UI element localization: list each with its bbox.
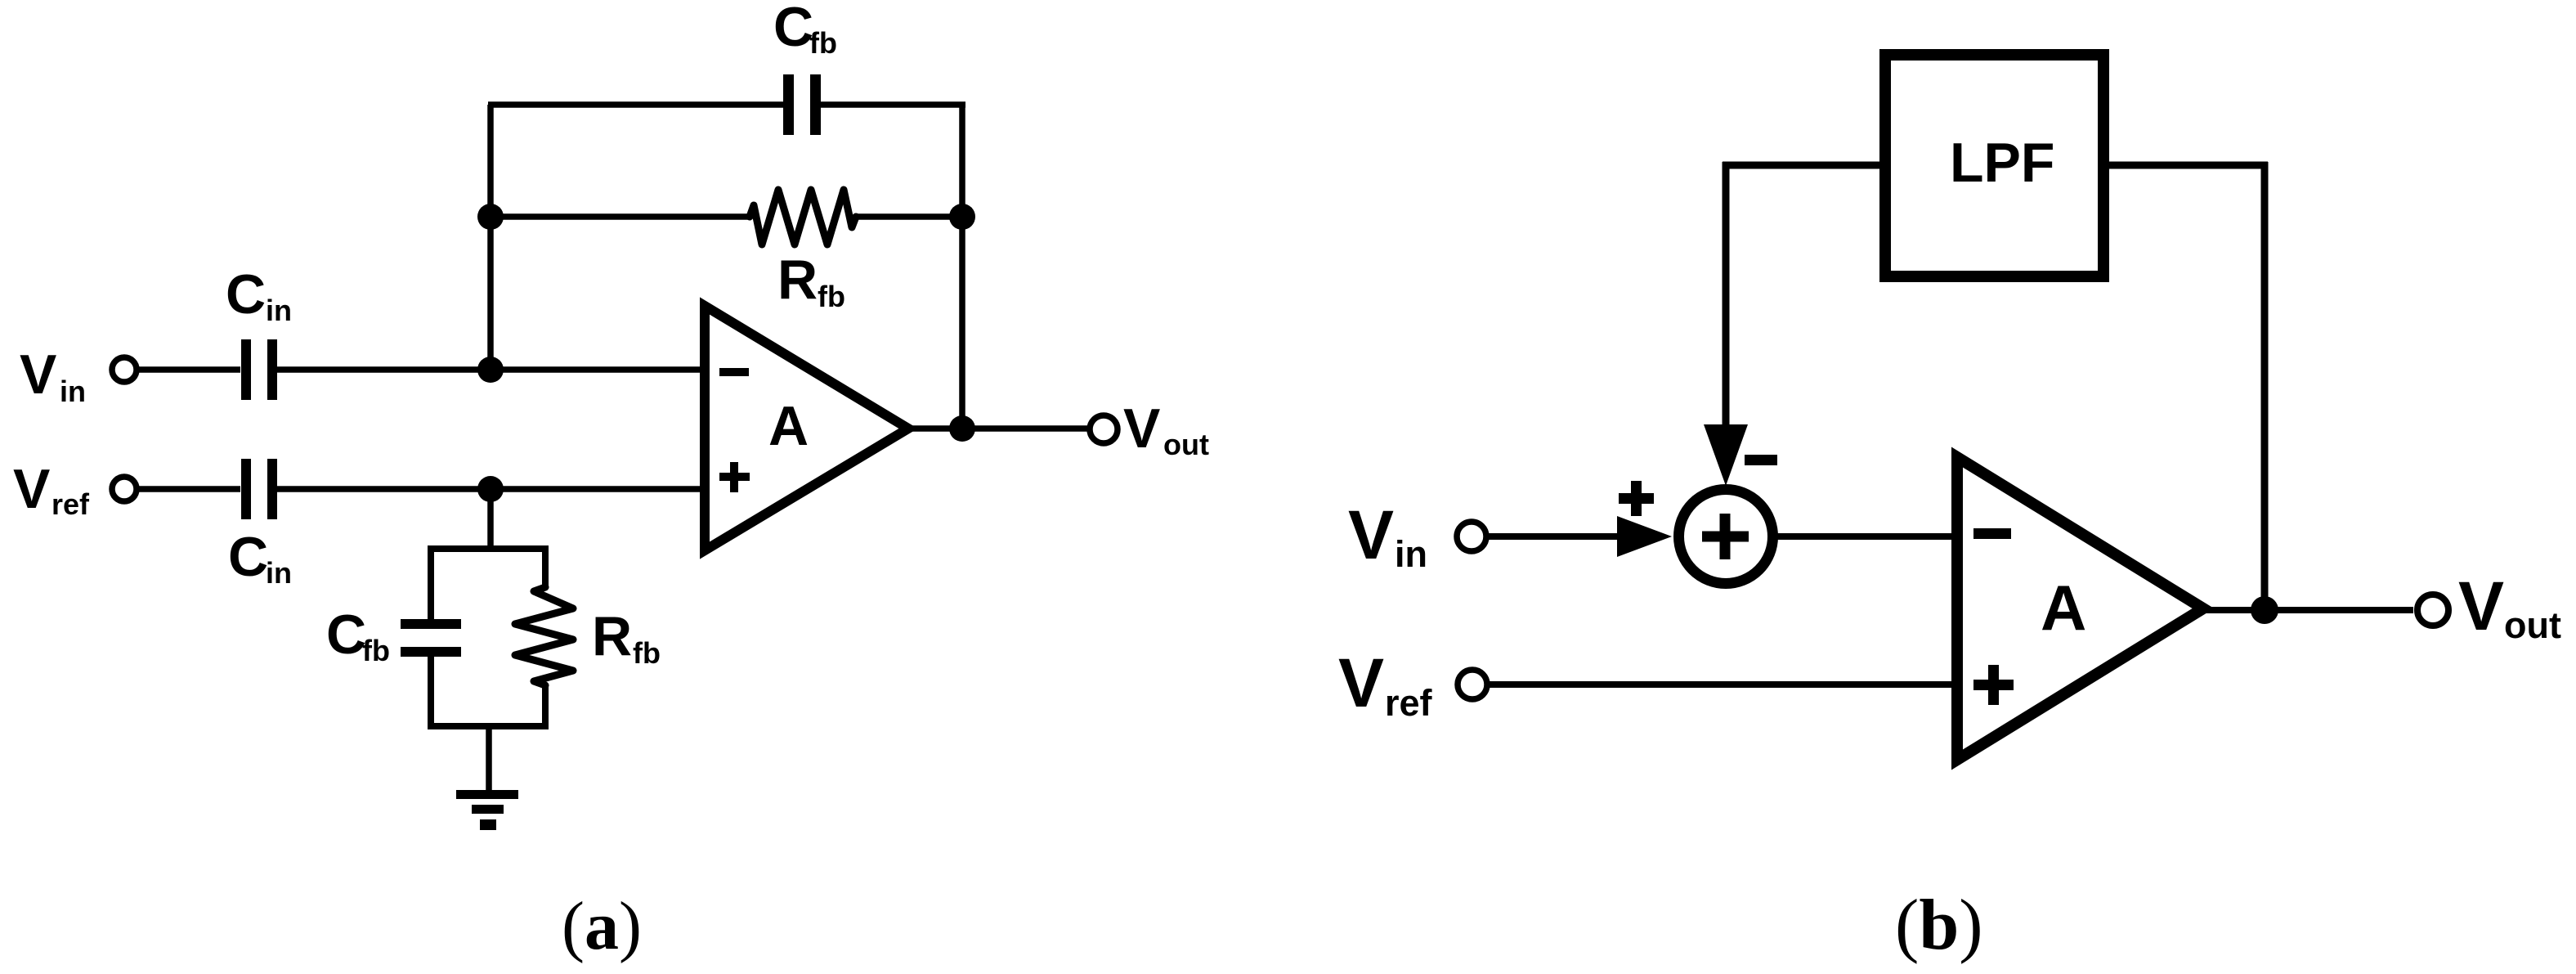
wire Vref to Cin2 <box>139 486 240 492</box>
svg-text:C: C <box>228 526 268 588</box>
wire RC block right lower lead <box>542 685 549 729</box>
svg-text:in: in <box>60 375 86 408</box>
svg-text:out: out <box>1163 428 1209 461</box>
wire RC block left upper <box>428 545 434 619</box>
terminal Vin b <box>1457 522 1486 551</box>
wire top feedback left segment <box>488 101 783 108</box>
svg-text:fb: fb <box>818 280 845 313</box>
wire op-amp output <box>908 425 1089 432</box>
label plus at summer <box>1619 481 1654 516</box>
wire Vref b to op-amp plus <box>1487 681 1954 688</box>
wire feedback vertical into summer <box>1723 162 1730 429</box>
op-amp A1 <box>705 306 908 550</box>
capacitor Cin1 <box>241 339 277 400</box>
label Vout b <box>2458 568 2561 646</box>
resistor Rfb1 <box>750 190 856 245</box>
summing node <box>1679 490 1773 584</box>
svg-text:in: in <box>1395 533 1427 575</box>
node non-inverting input junction <box>477 476 504 502</box>
svg-text:V: V <box>1123 397 1160 460</box>
label Vref b <box>1338 644 1433 724</box>
label Vin b <box>1348 496 1427 575</box>
svg-text:R: R <box>592 605 632 667</box>
terminal Vin <box>112 357 137 382</box>
svg-text:A: A <box>2041 572 2086 644</box>
svg-text:C: C <box>326 604 366 666</box>
wire RC block right upper lead <box>542 545 549 587</box>
node output junction b <box>2251 596 2278 624</box>
ground <box>456 790 518 830</box>
arrowhead Vin into summer <box>1617 516 1672 557</box>
arrowhead into summer <box>1704 424 1748 486</box>
wire RC block top <box>431 545 545 552</box>
capacitor Cfb1 <box>783 74 821 135</box>
label Vref <box>13 458 90 521</box>
wire Vin b to summer <box>1486 533 1627 540</box>
svg-text:ref: ref <box>1385 682 1433 724</box>
svg-text:fb: fb <box>362 634 390 667</box>
svg-text:(a): (a) <box>562 888 642 964</box>
wire Cin1 to op-amp minus input <box>277 366 701 373</box>
svg-text:V: V <box>20 343 56 406</box>
node output junction <box>949 415 975 442</box>
wire LPF right feedback horizontal <box>2103 162 2268 169</box>
terminal Vout <box>1090 415 1118 443</box>
terminal Vref b <box>1458 670 1487 699</box>
wire feedback right vertical <box>959 102 965 429</box>
svg-text:C: C <box>773 0 813 58</box>
wire Cin2 to op-amp plus input <box>277 486 701 492</box>
svg-text:ref: ref <box>52 487 90 521</box>
svg-text:R: R <box>777 249 818 311</box>
svg-text:C: C <box>226 263 266 325</box>
svg-text:fb: fb <box>809 26 837 60</box>
wire Vin to Cin <box>139 366 240 373</box>
node feedback left on Rfb row <box>477 204 504 230</box>
wire Rfb row left segment <box>491 213 750 220</box>
label Vout <box>1123 397 1209 461</box>
label Rfb2 <box>592 605 661 670</box>
svg-text:V: V <box>13 458 50 520</box>
capacitor Cfb2 <box>401 619 461 657</box>
wire RC block bottom <box>431 723 545 729</box>
terminal Vref <box>112 477 137 501</box>
label Cin2 <box>228 526 292 590</box>
wire feedback right vertical b <box>2261 162 2269 610</box>
wire feedback left vertical <box>487 105 494 370</box>
svg-text:in: in <box>266 556 292 590</box>
label Cin1 <box>226 263 292 327</box>
svg-text:V: V <box>2458 568 2504 644</box>
block LPF <box>1885 55 2103 276</box>
svg-text:A: A <box>768 395 809 457</box>
op-amp A2 <box>1957 457 2203 760</box>
label Vin <box>20 343 86 408</box>
wire RC block left lower <box>428 657 434 729</box>
node inverting input junction <box>477 357 504 383</box>
svg-text:V: V <box>1348 496 1394 573</box>
svg-text:out: out <box>2504 604 2561 646</box>
wire Vref junction to RC block <box>487 489 494 552</box>
label minus at summer <box>1745 455 1777 465</box>
svg-text:(b): (b) <box>1895 886 1983 965</box>
svg-text:V: V <box>1338 644 1384 721</box>
wire Rfb row right segment <box>856 213 962 220</box>
svg-text:fb: fb <box>633 636 661 670</box>
wire top feedback right segment <box>821 101 965 108</box>
label Cfb2 <box>326 604 390 667</box>
node feedback right on Rfb row <box>949 204 975 230</box>
resistor Rfb2 <box>515 587 573 685</box>
wire op-amp b output <box>2203 607 2413 613</box>
wire LPF left feedback horizontal <box>1723 162 1879 169</box>
svg-text:LPF: LPF <box>1950 132 2054 194</box>
label Rfb1 <box>777 249 845 313</box>
terminal Vout b <box>2417 595 2448 626</box>
wire summer to op-amp minus <box>1774 533 1954 540</box>
capacitor Cin2 <box>241 459 277 519</box>
svg-text:in: in <box>266 294 292 327</box>
wire to ground <box>486 726 492 790</box>
label Cfb1 <box>773 0 837 60</box>
